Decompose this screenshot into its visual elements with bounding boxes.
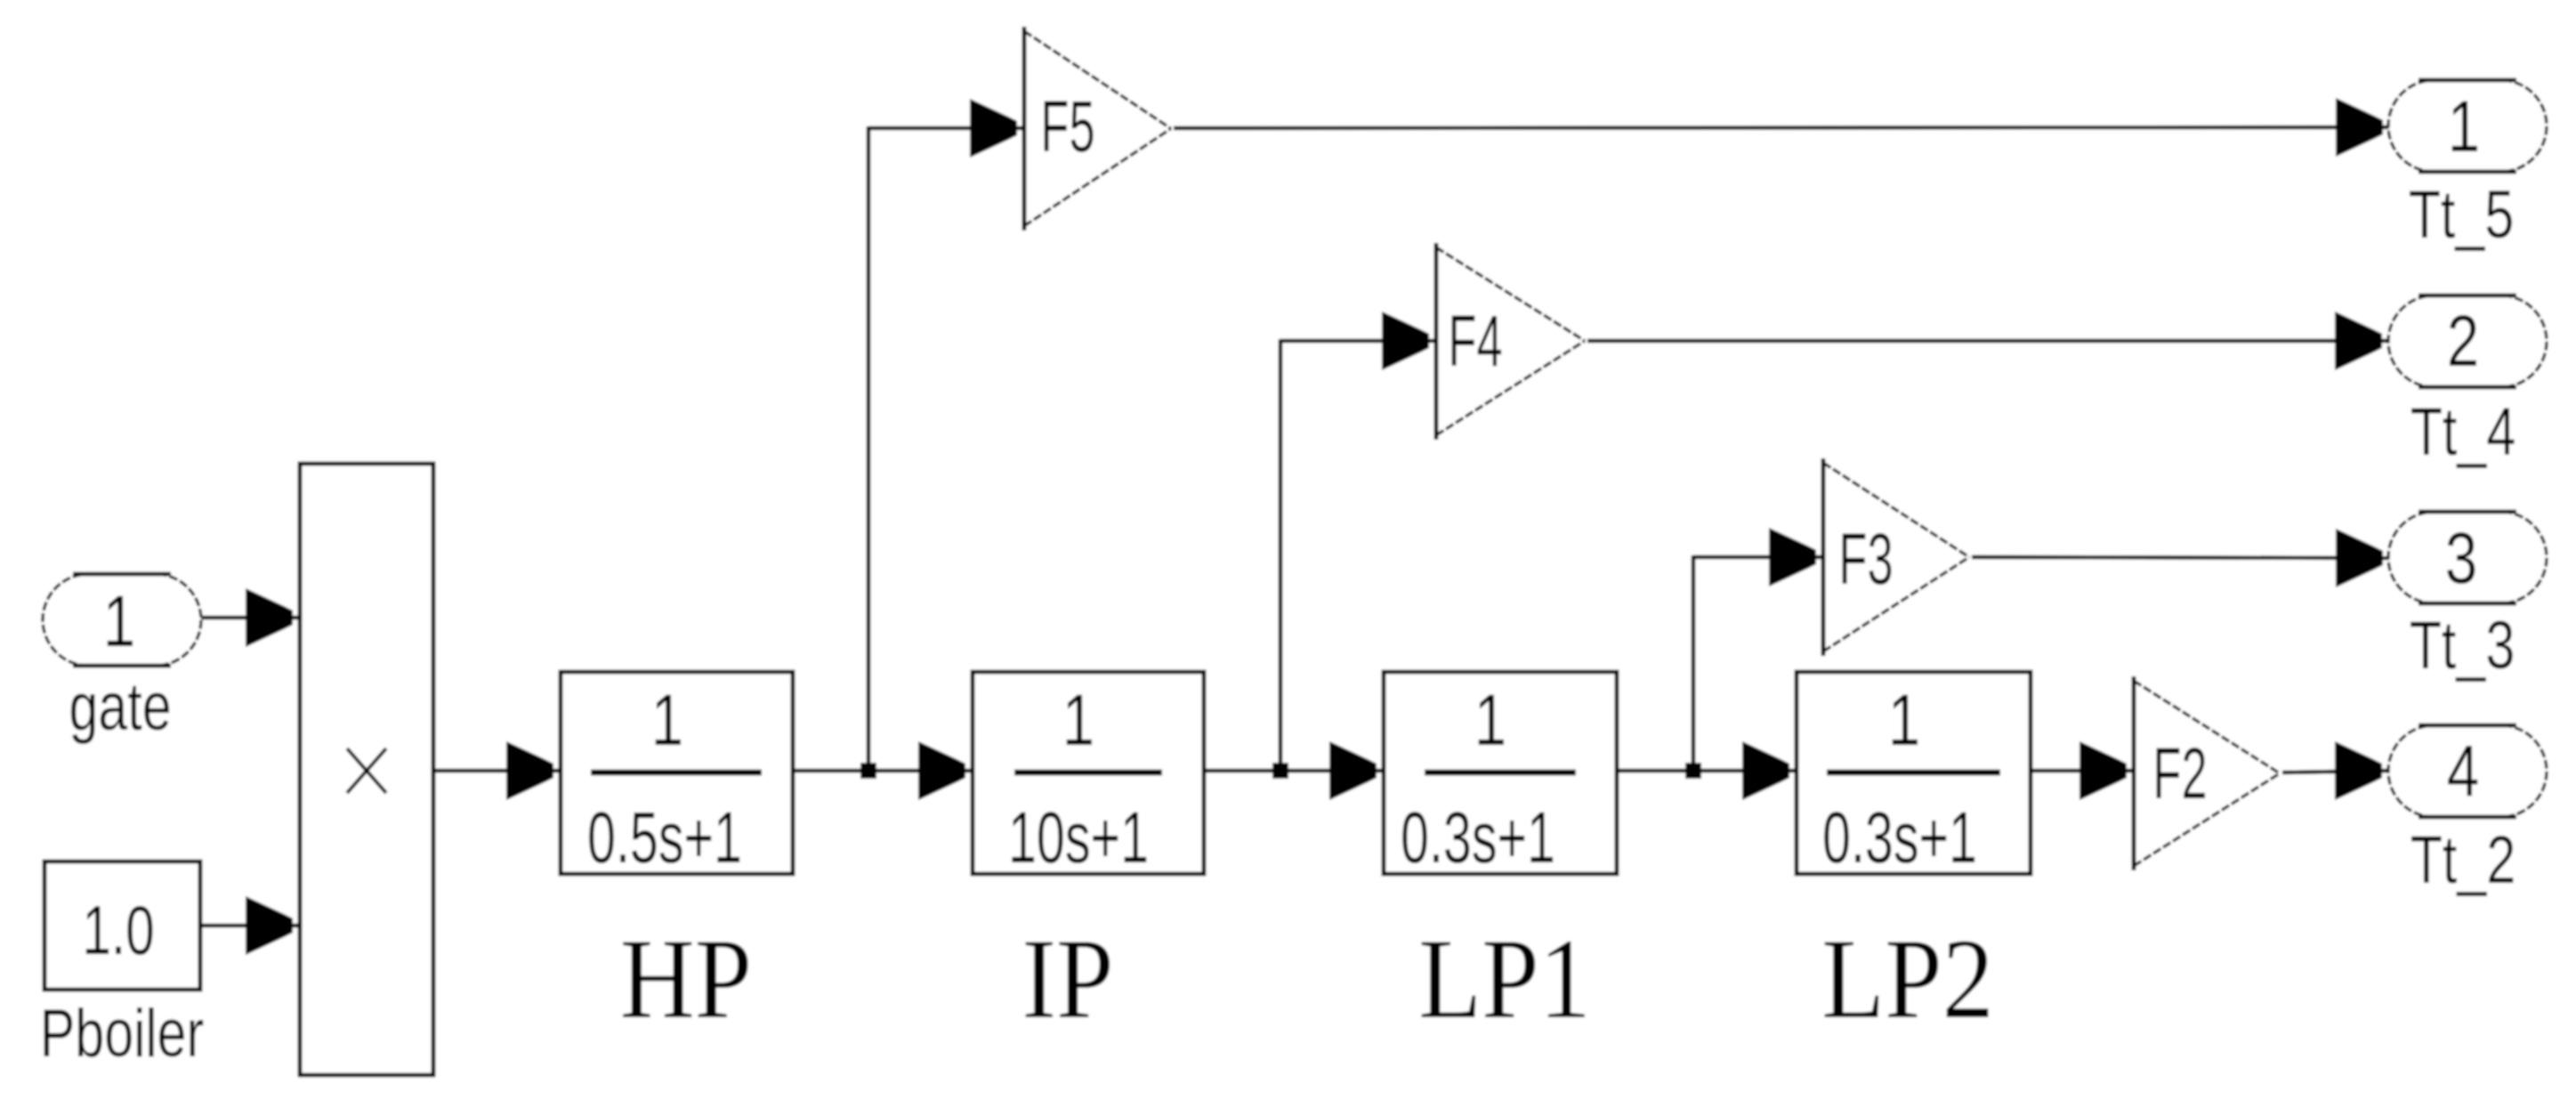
gain F5 [1024, 27, 1171, 230]
wire product to HP [433, 741, 560, 800]
wire Pboiler to product [200, 896, 299, 955]
svg-text:1: 1 [651, 679, 683, 761]
svg-text:1.0: 1.0 [82, 892, 154, 969]
outport 4 [2388, 725, 2547, 817]
svg-text:Tt_3: Tt_3 [2410, 608, 2515, 683]
wire HP to IP [793, 741, 972, 800]
svg-text:LP2: LP2 [1821, 915, 1994, 1042]
inport 1 (gate) [43, 574, 201, 666]
transfer function LP2 1/(0.3s+1) [1797, 672, 2031, 878]
svg-text:4: 4 [2447, 730, 2479, 812]
svg-text:1: 1 [1062, 679, 1094, 761]
wire riser to F5 [868, 99, 1023, 771]
junction node after IP [1272, 763, 1288, 779]
svg-text:Tt_4: Tt_4 [2410, 394, 2516, 470]
wire F5 to outport Tt_5 [1174, 98, 2389, 157]
wire F3 to outport Tt_3 [1972, 529, 2389, 587]
svg-text:Pboiler: Pboiler [40, 996, 204, 1072]
svg-text:F4: F4 [1448, 300, 1502, 382]
wire F4 to outport Tt_4 [1587, 311, 2388, 370]
wire LP2 to F2 [2031, 741, 2133, 800]
svg-text:1: 1 [1474, 679, 1506, 761]
svg-text:0.5s+1: 0.5s+1 [587, 797, 742, 878]
junction node after LP1 [1685, 763, 1701, 779]
wire riser to F4 [1280, 311, 1435, 771]
svg-text:Tt_5: Tt_5 [2409, 177, 2515, 253]
svg-text:1: 1 [1888, 679, 1920, 761]
gain F4 [1436, 243, 1585, 440]
wire F2 to outport Tt_2 [2282, 741, 2388, 800]
svg-text:0.3s+1: 0.3s+1 [1401, 797, 1555, 878]
svg-text:10s+1: 10s+1 [1008, 797, 1149, 878]
gain F3 [1823, 458, 1969, 656]
outport 3 [2388, 512, 2547, 603]
svg-text:F2: F2 [2152, 732, 2207, 814]
gain F2 [2134, 676, 2280, 870]
svg-text:1: 1 [2448, 85, 2480, 167]
wire riser to F3 [1693, 528, 1822, 771]
wire LP1 to LP2 [1617, 741, 1796, 800]
svg-text:3: 3 [2445, 517, 2477, 599]
svg-text:HP: HP [620, 915, 752, 1042]
wire IP to LP1 [1204, 741, 1383, 800]
svg-text:Tt_2: Tt_2 [2410, 822, 2516, 898]
svg-text:LP1: LP1 [1418, 915, 1591, 1042]
transfer function HP 1/(0.5s+1) [561, 672, 793, 878]
wire gate to product [201, 588, 299, 647]
svg-text:gate: gate [69, 669, 171, 745]
svg-text:1: 1 [103, 580, 135, 662]
svg-text:F3: F3 [1838, 518, 1893, 600]
product block X [300, 464, 433, 1075]
transfer function LP1 1/(0.3s+1) [1384, 672, 1617, 878]
svg-text:F5: F5 [1040, 85, 1094, 167]
svg-text:IP: IP [1022, 915, 1113, 1042]
constant Pboiler 1.0 [44, 861, 200, 990]
svg-text:0.3s+1: 0.3s+1 [1822, 797, 1977, 878]
outport 2 [2388, 295, 2547, 387]
outport 1 [2388, 80, 2547, 172]
transfer function IP 1/(10s+1) [973, 672, 1204, 878]
junction node after HP [860, 763, 876, 779]
svg-text:2: 2 [2447, 300, 2479, 382]
